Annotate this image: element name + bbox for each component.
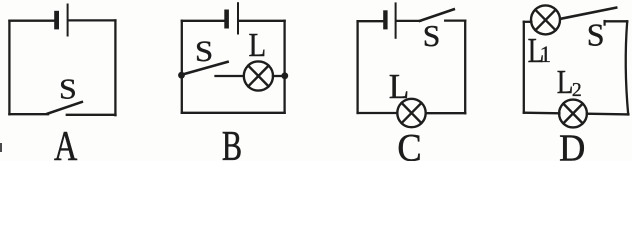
- svg-text:L: L: [557, 63, 574, 101]
- lamp L2 (D): [559, 100, 587, 128]
- lamp L (B): [244, 61, 273, 90]
- wire A top-left segment: [10, 20, 55, 22]
- battery A positive plate (thin): [67, 5, 69, 36]
- lamp L1 (D): [531, 5, 560, 34]
- node (junction dot) B right: [281, 72, 288, 79]
- wire D top-right segment: [605, 20, 628, 22]
- battery B positive plate (thin): [237, 3, 239, 33]
- battery (cell) B: [224, 3, 238, 33]
- circuit A: [9, 5, 115, 116]
- switch S (D) blade: [561, 8, 617, 19]
- switch S (A) blade: [48, 102, 82, 114]
- svg-text:S: S: [423, 18, 441, 53]
- wire B right edge: [283, 21, 285, 113]
- svg-text:A: A: [54, 123, 77, 161]
- wire D top-left segment: [524, 21, 532, 23]
- wire B middle segment (lamp to right edge): [273, 75, 285, 77]
- switch S (D) right contact tick: [603, 21, 605, 25]
- svg-text:1: 1: [540, 42, 552, 67]
- scan artifact mark bottom-left: [0, 143, 2, 152]
- svg-text:C: C: [397, 126, 421, 161]
- wire B top-left segment: [182, 20, 225, 22]
- svg-text:L: L: [389, 69, 409, 107]
- wire C top-left segment: [358, 20, 384, 22]
- battery A negative plate (thick): [54, 11, 59, 30]
- battery C negative plate (thick): [383, 10, 387, 29]
- wire C right edge: [464, 21, 466, 114]
- wire B top-right segment: [239, 20, 285, 22]
- wire A bottom-left segment: [9, 113, 48, 115]
- wire D bottom-left segment: [524, 112, 560, 115]
- switch S (B) blade: [182, 62, 228, 75]
- svg-text:B: B: [222, 122, 242, 161]
- wire A bottom-right segment: [67, 114, 116, 116]
- wire D bottom-right segment: [587, 113, 629, 116]
- circuit C: [358, 3, 466, 127]
- wire C left edge: [356, 21, 358, 113]
- wire A right edge: [114, 20, 116, 115]
- wire A top-right segment: [69, 19, 116, 21]
- switch S (C) blade: [420, 9, 454, 20]
- battery (cell) C: [383, 3, 395, 37]
- wire A left edge: [8, 21, 10, 115]
- battery C positive plate (thin): [395, 3, 397, 37]
- wire C top-right segment: [445, 19, 465, 21]
- wire B left edge: [181, 21, 183, 113]
- circuit D: [524, 5, 629, 127]
- circuit B: [178, 3, 288, 113]
- svg-text:2: 2: [572, 79, 582, 101]
- wire C bottom-left segment: [358, 112, 398, 114]
- svg-text:D: D: [559, 128, 585, 161]
- battery B negative plate (thick): [224, 10, 229, 29]
- wire C top middle segment (battery to switch): [397, 20, 421, 22]
- lamp L (C): [397, 99, 425, 127]
- wire C bottom-right segment: [426, 112, 466, 114]
- svg-text:S: S: [587, 17, 605, 53]
- wire B middle segment (switch to lamp): [216, 75, 244, 77]
- node (junction dot) B left: [178, 72, 185, 79]
- battery (cell) A: [54, 5, 67, 36]
- svg-text:S: S: [59, 73, 77, 105]
- wire D right edge (slightly bowed): [626, 21, 628, 114]
- svg-text:S: S: [195, 34, 213, 67]
- wire D left edge: [523, 22, 525, 113]
- svg-text:L: L: [248, 26, 266, 64]
- wire B bottom: [182, 112, 285, 114]
